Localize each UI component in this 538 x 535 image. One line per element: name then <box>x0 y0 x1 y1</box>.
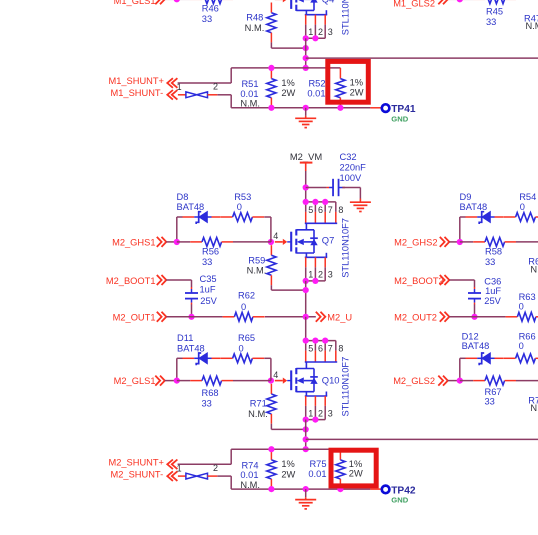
svg-text:D11: D11 <box>177 333 193 343</box>
node pin5 <box>303 199 309 205</box>
Q7 source bracket <box>305 253 327 257</box>
svg-text:D8: D8 <box>177 192 189 202</box>
node C36/OUT2 <box>471 314 477 320</box>
pin 3 Q7 <box>325 257 333 281</box>
svg-text:N.M.: N.M. <box>240 99 260 109</box>
resistor R62 <box>222 290 265 321</box>
resistor R58 <box>460 238 516 267</box>
svg-text:0: 0 <box>519 302 524 312</box>
svg-text:0: 0 <box>519 341 524 351</box>
node Q4 pin2 <box>312 35 318 41</box>
label R47 <box>524 14 538 32</box>
resistor R54 <box>504 192 538 221</box>
port M2_OUT2 <box>394 312 449 323</box>
wire M1 box bottom <box>231 107 370 109</box>
svg-text:Q7: Q7 <box>322 235 335 246</box>
svg-text:33: 33 <box>486 17 496 27</box>
node R59/source <box>303 287 309 293</box>
svg-text:R74: R74 <box>241 460 258 470</box>
port M2_SHUNT+ <box>108 458 181 474</box>
svg-text:M1_SHUNT-: M1_SHUNT- <box>110 88 163 98</box>
capacitor C36 <box>468 277 502 306</box>
svg-text:33: 33 <box>202 399 212 409</box>
label GND (TP41) <box>391 114 408 123</box>
pin 5 Q7 <box>306 202 314 223</box>
svg-text:0.01: 0.01 <box>240 89 258 99</box>
resistor R53 <box>221 192 264 221</box>
svg-text:R75: R75 <box>309 459 326 469</box>
svg-text:2: 2 <box>318 270 323 280</box>
wire GLS2 <box>448 380 460 382</box>
svg-text:2W: 2W <box>281 88 295 98</box>
svg-text:R53: R53 <box>234 192 251 202</box>
resistor R45 <box>460 0 516 27</box>
label STL110N10F7 (Q4) <box>340 0 350 35</box>
wire GLS1 <box>165 380 177 382</box>
svg-text:0: 0 <box>237 202 242 212</box>
Q10 drain bracket <box>305 362 337 369</box>
label R60 <box>528 257 538 275</box>
wire shunt- stub <box>217 476 231 489</box>
pin 4 Q7 gate arrow <box>275 239 291 245</box>
svg-text:1%: 1% <box>281 459 294 469</box>
svg-text:R54: R54 <box>519 192 536 202</box>
svg-text:R56: R56 <box>202 247 219 257</box>
svg-text:3: 3 <box>328 270 333 280</box>
svg-text:7: 7 <box>328 344 333 354</box>
resistor R65 <box>221 333 264 363</box>
wire M1_GLS1 <box>165 0 177 1</box>
port M2_GHS1 <box>112 237 166 248</box>
wire shunt+ stub <box>178 449 232 464</box>
resistor R75 <box>308 449 345 489</box>
resistor R67 <box>460 376 516 406</box>
svg-text:2W: 2W <box>350 87 364 97</box>
port M1_SHUNT+ <box>108 76 181 92</box>
wire C35 to OUT1 <box>191 304 193 316</box>
wire R71 to column <box>271 424 305 430</box>
node Q7 pin2 <box>312 278 318 284</box>
port M1_SHUNT- <box>110 88 177 100</box>
svg-text:R59: R59 <box>248 256 265 266</box>
svg-text:0: 0 <box>239 344 244 354</box>
svg-text:R62: R62 <box>238 290 255 300</box>
svg-text:R51: R51 <box>241 79 258 89</box>
ground (M1 shunt) <box>295 108 316 128</box>
pin 1 Q4 <box>306 15 314 39</box>
svg-text:1%: 1% <box>281 78 294 88</box>
capacitor C35 <box>185 274 218 306</box>
wire source to out <box>305 281 307 317</box>
wire phase right <box>306 438 538 440</box>
node pin7 <box>322 199 328 205</box>
svg-text:D9: D9 <box>460 192 472 202</box>
pin 7 Q10 <box>325 341 333 362</box>
svg-text:R45: R45 <box>486 7 503 17</box>
node Q10 pin2 <box>312 417 318 423</box>
node box top <box>303 446 309 452</box>
svg-text:3: 3 <box>328 27 333 37</box>
transistor Q4 (partial) <box>291 0 334 11</box>
diode D11 BAT48 <box>177 333 221 365</box>
node Q10 pin6 <box>312 338 318 344</box>
svg-text:7: 7 <box>328 205 333 215</box>
svg-text:M2_GHS2: M2_GHS2 <box>394 237 437 247</box>
ground (C32) <box>350 199 371 212</box>
svg-text:M2_GHS1: M2_GHS1 <box>112 237 155 247</box>
svg-text:2: 2 <box>318 408 323 418</box>
node GHS2 junction <box>457 239 463 245</box>
port M1_GLS2 (partial) <box>393 0 448 9</box>
wire Q4 source bus <box>306 37 326 39</box>
wire GLS2 branch up <box>460 358 466 380</box>
diode D12 BAT48 <box>462 332 504 366</box>
node Q10 pin7 <box>322 338 328 344</box>
wire M1 column down <box>305 38 307 68</box>
wire Q10 source bus <box>306 419 326 421</box>
svg-text:C35: C35 <box>200 274 217 284</box>
svg-text:8: 8 <box>338 344 343 354</box>
port M2_OUT1 <box>113 312 167 323</box>
Q4 source bracket <box>305 10 327 15</box>
svg-text:STL110N10F7: STL110N10F7 <box>340 0 350 35</box>
svg-text:R48: R48 <box>246 12 263 22</box>
port M2_GLS2 <box>393 376 448 387</box>
node M1 box top <box>303 65 309 71</box>
wire C36 to OUT2 <box>474 304 476 316</box>
wire GHS2 branch up <box>460 217 466 242</box>
pin 2 Q7 <box>315 257 323 281</box>
svg-text:M2_U: M2_U <box>327 313 352 323</box>
pin 4 Q10 gate arrow <box>275 378 291 384</box>
wire R56 to node 4 <box>233 241 271 243</box>
wire column down <box>305 420 307 450</box>
wire GHS1 <box>166 241 177 243</box>
svg-text:0.01: 0.01 <box>307 89 325 99</box>
wire R46 to node 4 <box>233 0 271 1</box>
resistor R48 <box>245 3 276 43</box>
svg-text:1uF: 1uF <box>200 285 216 295</box>
diode D9 BAT48 <box>460 192 504 224</box>
resistor R52 <box>307 68 345 108</box>
svg-text:220nF: 220nF <box>340 162 367 172</box>
svg-text:0.01: 0.01 <box>308 469 326 479</box>
label R52 1% 2W <box>350 78 364 98</box>
node M1_GLS1 junction <box>174 0 180 2</box>
jumper (M1 shunt connector) <box>178 82 218 98</box>
resistor R68 <box>177 376 233 408</box>
svg-text:33: 33 <box>485 396 495 406</box>
net label M2_U <box>316 312 352 323</box>
wire OUT1 left <box>166 316 222 318</box>
svg-text:BAT48: BAT48 <box>177 202 205 212</box>
wire shunt box bottom <box>231 488 370 490</box>
node R74 bottom <box>268 486 274 492</box>
svg-text:2W: 2W <box>281 469 295 479</box>
node 4 (Q7 gate) <box>268 231 278 245</box>
svg-text:1: 1 <box>308 408 313 418</box>
node pin6 <box>312 199 318 205</box>
svg-text:N.M.: N.M. <box>247 265 267 275</box>
wire M1_GLS2 <box>448 0 460 1</box>
node box bottom/column <box>303 486 309 492</box>
svg-text:STL110N10F7: STL110N10F7 <box>340 218 350 278</box>
label STL110N10F7 (Q7) <box>340 218 350 278</box>
pin 1 Q10 <box>306 396 314 420</box>
node Q4 source <box>303 35 309 41</box>
svg-text:M2_OUT1: M2_OUT1 <box>113 312 156 322</box>
label R72 <box>528 395 538 413</box>
svg-text:M1_GLS1: M1_GLS1 <box>114 0 156 6</box>
jumper (shunt connector) <box>178 463 218 479</box>
svg-text:3: 3 <box>328 408 333 418</box>
svg-text:BAT48: BAT48 <box>462 341 490 351</box>
resistor R56 <box>177 238 233 267</box>
wire M1 shunt+ stub <box>178 68 232 83</box>
svg-text:R67: R67 <box>485 387 502 397</box>
label R74 1% 2W <box>281 459 295 479</box>
wire GHS1 branch up <box>177 217 183 242</box>
svg-text:GND: GND <box>391 496 408 505</box>
wire M1 shunt- stub <box>217 95 231 108</box>
svg-text:6: 6 <box>318 344 323 354</box>
svg-text:STL110N10F7: STL110N10F7 <box>340 357 350 417</box>
svg-text:M2_SHUNT-: M2_SHUNT- <box>110 469 163 479</box>
svg-text:R68: R68 <box>202 388 219 398</box>
svg-text:1: 1 <box>308 270 313 280</box>
svg-text:0.01: 0.01 <box>240 470 258 480</box>
wire GHS2 <box>449 241 460 243</box>
pin 8 Q7 <box>336 202 344 223</box>
pin 6 Q10 <box>315 341 323 362</box>
resistor R63 <box>505 292 538 321</box>
capacitor C32 <box>327 152 367 196</box>
resistor R66 <box>504 332 538 363</box>
wire R48 to column <box>271 42 305 48</box>
port M2_GHS2 <box>394 237 449 248</box>
node phase tap <box>303 436 309 442</box>
svg-text:0: 0 <box>241 302 246 312</box>
svg-text:N.M.: N.M. <box>240 480 260 490</box>
node R51 bottom <box>268 105 274 111</box>
svg-text:Q10: Q10 <box>322 375 340 386</box>
wire Q7 source bus <box>306 280 326 282</box>
pin 3 Q4 <box>325 15 333 39</box>
svg-text:M2_SHUNT+: M2_SHUNT+ <box>108 458 164 468</box>
svg-text:N.M.: N.M. <box>248 409 268 419</box>
svg-text:N.M.: N.M. <box>245 23 265 33</box>
pin 4 Q4 gate arrow (partial) <box>275 0 291 2</box>
node R51 top <box>268 65 274 71</box>
node M1 box bottom/column <box>303 105 309 111</box>
wire R68 to node 4 <box>233 380 271 382</box>
wire Q7 drain bus <box>306 201 336 203</box>
wire M2_U to Q10 <box>305 317 307 341</box>
svg-text:4: 4 <box>273 370 278 380</box>
node R71/column <box>303 426 309 432</box>
wire shunt box top <box>231 448 341 450</box>
svg-text:M2_GLS2: M2_GLS2 <box>393 376 435 386</box>
node Q7 source <box>303 278 309 284</box>
svg-text:2: 2 <box>318 27 323 37</box>
node R74 top <box>268 446 274 452</box>
svg-text:N.M.: N.M. <box>530 264 538 274</box>
pin 7 Q7 <box>325 202 333 223</box>
wire OUT1 right <box>265 316 316 318</box>
svg-text:100V: 100V <box>340 173 363 183</box>
svg-text:4: 4 <box>273 231 278 241</box>
highlight rectangle (R52) <box>328 61 369 102</box>
label STL110N10F7 (Q10) <box>340 357 350 417</box>
svg-text:BAT48: BAT48 <box>177 344 205 354</box>
diode D8 BAT48 <box>177 192 221 224</box>
svg-text:5: 5 <box>308 344 313 354</box>
svg-text:6: 6 <box>318 205 323 215</box>
svg-text:R46: R46 <box>202 4 219 14</box>
wire R65 to node 4 <box>264 358 271 380</box>
svg-text:R52: R52 <box>308 79 325 89</box>
node M1_GLS2 junction <box>457 0 463 2</box>
svg-text:0: 0 <box>520 202 525 212</box>
svg-text:25V: 25V <box>200 296 217 306</box>
port M2_BOOT1 <box>106 275 166 286</box>
wire R67 to edge <box>516 380 538 382</box>
node Q10 pin5 <box>303 338 309 344</box>
wire R59 to source <box>271 285 305 290</box>
svg-text:1uF: 1uF <box>485 286 501 296</box>
svg-text:8: 8 <box>338 205 343 215</box>
svg-text:R63: R63 <box>519 292 536 302</box>
wire GLS1 branch up <box>177 358 183 380</box>
svg-text:2: 2 <box>213 463 218 473</box>
svg-text:1: 1 <box>308 27 313 37</box>
svg-text:5: 5 <box>308 205 313 215</box>
wire M2_VM vertical <box>305 171 307 202</box>
svg-text:M2_BOOT1: M2_BOOT1 <box>106 276 156 286</box>
wire R53 to node 4 <box>264 217 271 242</box>
Q10 source bracket <box>305 392 327 397</box>
svg-text:Q4: Q4 <box>322 0 335 4</box>
port M2_SHUNT- <box>110 469 177 481</box>
node R75 bottom <box>337 486 343 492</box>
svg-text:R65: R65 <box>238 333 255 343</box>
wire M1 box top <box>231 67 340 69</box>
port M1_GLS1 (partial) <box>114 0 165 6</box>
label R75 1% 2W <box>349 459 363 479</box>
node GHS1 junction <box>174 239 180 245</box>
svg-text:GND: GND <box>391 114 408 123</box>
testpoint TP41 <box>370 104 415 115</box>
pin 3 Q10 <box>325 396 333 420</box>
svg-text:2W: 2W <box>349 469 363 479</box>
resistor R59 <box>247 245 276 285</box>
node Q10 source <box>303 417 309 423</box>
node R52 bottom <box>337 105 343 111</box>
node C35/OUT1 <box>188 314 194 320</box>
svg-text:M1_GLS2: M1_GLS2 <box>393 0 435 9</box>
node OUT1/column <box>303 314 309 320</box>
svg-text:33: 33 <box>485 257 495 267</box>
svg-text:N.M.: N.M. <box>526 21 538 31</box>
pin 2 Q4 <box>315 15 323 39</box>
label GND (TP42) <box>391 496 408 505</box>
wire Q10 drain bus <box>306 340 336 342</box>
resistor R71 <box>248 384 276 424</box>
wire BOOT2 <box>449 280 474 287</box>
svg-text:M2_VM: M2_VM <box>290 151 322 162</box>
node M2_VM junction <box>303 184 309 190</box>
resistor R51 <box>240 68 276 109</box>
Q7 drain bracket <box>305 223 337 230</box>
port M2_GLS1 <box>114 376 165 387</box>
node M1 phase tap <box>303 55 309 61</box>
ground (M2 shunt) <box>295 489 316 509</box>
wire to C32 <box>306 187 327 189</box>
svg-text:M2_GLS1: M2_GLS1 <box>114 376 156 386</box>
svg-text:C32: C32 <box>340 152 357 162</box>
svg-text:33: 33 <box>202 14 212 24</box>
wire M1 phase right <box>306 57 538 59</box>
svg-text:C36: C36 <box>484 277 501 287</box>
resistor R46 <box>177 0 233 24</box>
op Q10 transistor <box>291 368 339 392</box>
pin 6 Q7 <box>315 202 323 223</box>
pin 1 Q7 <box>306 257 314 281</box>
op Q7 transistor <box>291 229 334 253</box>
port M2_BOOT2 <box>394 275 449 286</box>
power flag M2_VM <box>290 151 322 171</box>
highlight rectangle (R75) <box>331 450 376 486</box>
svg-text:R71: R71 <box>250 398 267 408</box>
svg-text:25V: 25V <box>484 296 501 306</box>
wire C32 to ground <box>342 188 360 199</box>
svg-text:M2_OUT2: M2_OUT2 <box>394 312 437 322</box>
wire R58 to edge <box>516 241 538 243</box>
resistor R74 <box>240 449 276 490</box>
svg-text:1%: 1% <box>350 78 363 88</box>
node R48/column <box>303 45 309 51</box>
node GLS1 junction <box>174 378 180 384</box>
svg-text:1%: 1% <box>349 459 362 469</box>
svg-text:BAT48: BAT48 <box>460 202 488 212</box>
svg-text:33: 33 <box>202 257 212 267</box>
wire BOOT1 <box>166 280 191 287</box>
testpoint TP42 <box>370 485 415 496</box>
pin 8 Q10 <box>336 341 344 362</box>
svg-text:R58: R58 <box>485 247 502 257</box>
svg-text:N.M.: N.M. <box>530 403 538 413</box>
node GLS2 junction <box>457 378 463 384</box>
wire OUT2 <box>449 316 505 318</box>
label R51 1% 2W <box>281 78 295 98</box>
svg-text:M1_SHUNT+: M1_SHUNT+ <box>108 76 164 86</box>
svg-text:M2_BOOT2: M2_BOOT2 <box>394 276 444 286</box>
pin 5 Q10 <box>306 341 314 362</box>
svg-text:2: 2 <box>213 82 218 92</box>
pin 2 Q10 <box>315 396 323 420</box>
node 4 (Q10 gate) <box>268 370 278 384</box>
